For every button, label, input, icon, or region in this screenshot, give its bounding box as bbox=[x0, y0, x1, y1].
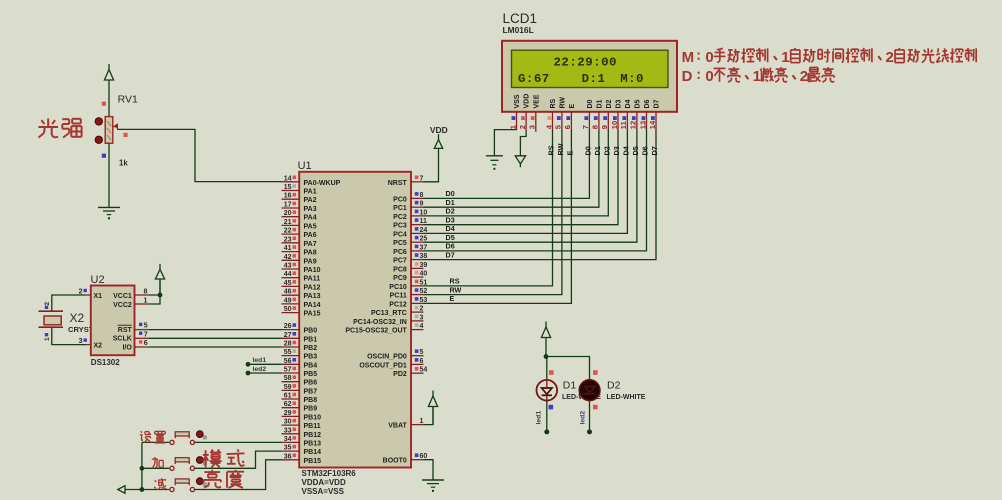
U1 pin 28 (PB2) bbox=[282, 346, 300, 348]
svg-text:9: 9 bbox=[600, 125, 609, 129]
wire 加 to PB14 bbox=[195, 451, 282, 468]
svg-text:PC1: PC1 bbox=[393, 205, 407, 212]
svg-text:PA14: PA14 bbox=[304, 302, 321, 309]
U1 pin 16 (PA2) bbox=[282, 198, 300, 200]
svg-text:D0: D0 bbox=[587, 99, 594, 108]
svg-text:VSS: VSS bbox=[514, 94, 521, 108]
svg-text:D4: D4 bbox=[446, 224, 455, 233]
svg-text:PC3: PC3 bbox=[393, 223, 407, 230]
svg-text:20: 20 bbox=[284, 210, 292, 217]
button 减 bbox=[170, 487, 174, 491]
svg-text:D4: D4 bbox=[625, 99, 632, 108]
wire X1 to crystal top bbox=[52, 295, 87, 311]
svg-text:D2: D2 bbox=[606, 99, 613, 108]
U1 pin 50 (PA15) bbox=[282, 312, 300, 314]
wire rail to ground arrow bbox=[125, 489, 142, 491]
svg-text:34: 34 bbox=[284, 436, 292, 443]
U2 pin 1 (VCC2) bbox=[135, 303, 149, 305]
svg-text:RST: RST bbox=[118, 327, 133, 334]
svg-text:PC13_RTC: PC13_RTC bbox=[371, 310, 407, 317]
svg-text:STM32F103R6: STM32F103R6 bbox=[302, 469, 357, 478]
svg-text:PB1: PB1 bbox=[304, 336, 318, 343]
svg-text:50: 50 bbox=[284, 306, 292, 313]
svg-text:D:1: D:1 bbox=[582, 72, 606, 86]
svg-text:VDDA=VDD: VDDA=VDD bbox=[302, 478, 346, 487]
U1 pin 29 (PB10) bbox=[282, 415, 300, 417]
svg-text:LM016L: LM016L bbox=[503, 25, 534, 35]
svg-text:33: 33 bbox=[284, 427, 292, 434]
wire D1 to led1 net bbox=[546, 401, 548, 431]
svg-text:45: 45 bbox=[284, 280, 292, 287]
svg-text:BOOT0: BOOT0 bbox=[383, 458, 407, 465]
net led2 wire to PB5 bbox=[246, 371, 251, 376]
svg-text:PA12: PA12 bbox=[304, 284, 321, 291]
svg-text:D6: D6 bbox=[641, 146, 650, 155]
U1 pin 7 (NRST) bbox=[411, 181, 424, 183]
U2 pin 8 (VCC1) bbox=[135, 294, 149, 296]
svg-text:PA10: PA10 bbox=[304, 267, 321, 274]
svg-text:VDD: VDD bbox=[430, 125, 448, 135]
junction LED supply bbox=[544, 354, 549, 359]
ground (RV1) bbox=[98, 206, 120, 208]
svg-text:VDD: VDD bbox=[524, 94, 531, 109]
U1 pin 20 (PA4) bbox=[282, 216, 300, 218]
wire BOOT0 to ground bbox=[424, 460, 434, 480]
wire RST to U1 PB0 bbox=[148, 329, 281, 331]
U2 pin 5 (RST) bbox=[135, 329, 149, 331]
RV1 wiper arrow bbox=[116, 124, 118, 129]
U1 pin 3 (PC14-OSC32_IN) bbox=[411, 320, 424, 322]
U1 pin 57 (PB5) bbox=[282, 372, 300, 374]
svg-text:D0: D0 bbox=[583, 146, 592, 155]
svg-text:6: 6 bbox=[563, 125, 572, 129]
U1 pin 36 (PB15) bbox=[282, 459, 300, 461]
svg-text:PA5: PA5 bbox=[304, 223, 317, 230]
svg-text:D0: D0 bbox=[446, 189, 455, 198]
U2 pin 6 (I/O) bbox=[135, 346, 149, 348]
svg-text:led2: led2 bbox=[580, 411, 587, 425]
U1 pin 11 (PC3) bbox=[411, 224, 424, 226]
svg-text:35: 35 bbox=[284, 445, 292, 452]
wire button rail bbox=[141, 442, 143, 489]
svg-text:PB4: PB4 bbox=[304, 362, 318, 369]
junction rail-加 bbox=[140, 466, 145, 471]
svg-text:D1: D1 bbox=[563, 379, 577, 391]
LCD1 body bbox=[502, 41, 677, 112]
RV1 adjust button down bbox=[95, 136, 102, 143]
wire D7 LCD to U1 bbox=[424, 130, 657, 260]
svg-text:1: 1 bbox=[781, 49, 789, 66]
U1 pin 53 (PC12) bbox=[411, 302, 424, 304]
svg-text:D3: D3 bbox=[612, 146, 621, 155]
power down arrow (LCD VDD) bbox=[515, 156, 525, 164]
svg-text:16: 16 bbox=[284, 193, 292, 200]
svg-text:1k: 1k bbox=[119, 159, 128, 168]
svg-text:12: 12 bbox=[629, 121, 638, 129]
svg-text:PB12: PB12 bbox=[304, 432, 322, 439]
svg-text:U2: U2 bbox=[91, 274, 105, 286]
svg-text:PC7: PC7 bbox=[393, 258, 407, 265]
U1 pin 8 (PC0) bbox=[411, 197, 424, 199]
U1 body bbox=[299, 172, 411, 468]
U1 pin 9 (PC1) bbox=[411, 206, 424, 208]
wire D6 LCD to U1 bbox=[424, 130, 647, 251]
svg-text:led1: led1 bbox=[536, 411, 543, 425]
svg-text:59: 59 bbox=[284, 384, 292, 391]
wire D0 LCD to U1 bbox=[424, 130, 590, 199]
svg-text:X2: X2 bbox=[94, 342, 103, 349]
svg-text:PB10: PB10 bbox=[304, 414, 322, 421]
wire LCD VDD to power bbox=[520, 130, 526, 156]
svg-text:58: 58 bbox=[284, 375, 292, 382]
svg-text:E: E bbox=[569, 104, 576, 109]
svg-text:E: E bbox=[565, 151, 574, 156]
svg-text:PC15-OSC32_OUT: PC15-OSC32_OUT bbox=[345, 328, 407, 335]
U1 pin 61 (PB8) bbox=[282, 398, 300, 400]
wire to D2 bbox=[546, 357, 590, 380]
svg-text:2: 2 bbox=[44, 302, 51, 306]
ground arrow (buttons) bbox=[118, 486, 125, 494]
svg-text:43: 43 bbox=[284, 263, 292, 270]
svg-text:PB11: PB11 bbox=[304, 423, 321, 430]
svg-text:SCLK: SCLK bbox=[113, 336, 132, 343]
svg-text:D1: D1 bbox=[597, 99, 604, 108]
svg-text:PA2: PA2 bbox=[304, 197, 317, 204]
U2 pin 7 (SCLK) bbox=[135, 337, 149, 339]
svg-text:PA0-WKUP: PA0-WKUP bbox=[304, 180, 341, 187]
svg-text:9: 9 bbox=[420, 201, 424, 208]
U1 pin 44 (PA11) bbox=[282, 277, 300, 279]
svg-text:D2: D2 bbox=[446, 207, 455, 216]
svg-text:6: 6 bbox=[144, 340, 148, 347]
svg-text:PA9: PA9 bbox=[304, 258, 317, 265]
svg-text:22: 22 bbox=[284, 228, 292, 235]
svg-text:0: 0 bbox=[705, 68, 713, 85]
svg-text:M: M bbox=[682, 49, 694, 66]
svg-text:D7: D7 bbox=[650, 146, 659, 155]
U1 pin 38 (PC7) bbox=[411, 259, 424, 261]
svg-text:E: E bbox=[450, 294, 455, 303]
svg-text:PC14-OSC32_IN: PC14-OSC32_IN bbox=[353, 319, 407, 326]
svg-text:RS: RS bbox=[450, 277, 460, 286]
svg-text:PA11: PA11 bbox=[304, 276, 321, 283]
svg-text:2: 2 bbox=[886, 49, 894, 66]
U1 pin 23 (PA7) bbox=[282, 242, 300, 244]
wire D2 LCD to U1 bbox=[424, 130, 609, 216]
LED D2 (on) bbox=[579, 380, 600, 401]
svg-text:PA7: PA7 bbox=[304, 241, 317, 248]
svg-text:2: 2 bbox=[800, 68, 808, 85]
svg-text:10: 10 bbox=[610, 121, 619, 129]
svg-text:44: 44 bbox=[284, 271, 292, 278]
svg-text:PB5: PB5 bbox=[304, 371, 318, 378]
U1 pin 43 (PA10) bbox=[282, 268, 300, 270]
svg-text:PB15: PB15 bbox=[304, 458, 322, 465]
svg-text:PC10: PC10 bbox=[389, 284, 407, 291]
junction rail-减 bbox=[140, 487, 145, 492]
svg-text:21: 21 bbox=[284, 219, 292, 226]
svg-text:D6: D6 bbox=[446, 242, 455, 251]
wire D5 LCD to U1 bbox=[424, 130, 637, 243]
svg-text:PD2: PD2 bbox=[393, 371, 407, 378]
potentiometer RV1 bbox=[105, 117, 113, 144]
U2 body bbox=[91, 286, 135, 356]
svg-text:42: 42 bbox=[284, 254, 292, 261]
svg-text:3: 3 bbox=[420, 314, 424, 321]
svg-text:OSCOUT_PD1: OSCOUT_PD1 bbox=[359, 362, 407, 369]
U1 pin 1 (VBAT) bbox=[411, 424, 424, 426]
wire D1 LCD to U1 bbox=[424, 130, 599, 208]
U1 pin 49 (PA14) bbox=[282, 303, 300, 305]
button 设置 bbox=[170, 440, 174, 444]
svg-text:PC8: PC8 bbox=[393, 266, 407, 273]
RV1 adjust button up bbox=[95, 118, 102, 125]
svg-text:D6: D6 bbox=[644, 99, 651, 108]
U1 pin 60 (BOOT0) bbox=[411, 459, 424, 461]
svg-text:PB9: PB9 bbox=[304, 406, 318, 413]
svg-text:39: 39 bbox=[420, 262, 428, 269]
svg-text:29: 29 bbox=[284, 410, 292, 417]
svg-text:D3: D3 bbox=[616, 99, 623, 108]
svg-text:M:0: M:0 bbox=[620, 72, 644, 86]
svg-text:26: 26 bbox=[284, 323, 292, 330]
svg-text:VEE: VEE bbox=[533, 94, 540, 108]
svg-text:OSCIN_PD0: OSCIN_PD0 bbox=[367, 354, 407, 361]
svg-text:36: 36 bbox=[284, 453, 292, 460]
svg-text:D2: D2 bbox=[607, 379, 621, 391]
svg-text:17: 17 bbox=[284, 202, 292, 209]
svg-text:D7: D7 bbox=[446, 250, 455, 259]
wire 减 to PB15 bbox=[195, 460, 282, 490]
junction VCC bbox=[158, 293, 163, 298]
power arrow (U2 VCC) bbox=[159, 264, 161, 295]
U2 pin 2 (X1) bbox=[86, 294, 91, 296]
svg-text:5: 5 bbox=[144, 323, 148, 330]
button 加 bbox=[170, 466, 174, 470]
svg-text:PC6: PC6 bbox=[393, 249, 407, 256]
U1 pin 15 (PA1) bbox=[282, 190, 300, 192]
svg-text:2: 2 bbox=[79, 289, 83, 296]
svg-text:PB13: PB13 bbox=[304, 440, 322, 447]
wire to D1 bbox=[546, 357, 548, 381]
U1 pin 41 (PA8) bbox=[282, 251, 300, 253]
wire RV1 bottom bbox=[108, 143, 110, 207]
svg-text:D5: D5 bbox=[446, 233, 455, 242]
U1 pin 6 (OSCOUT_PD1) bbox=[411, 363, 424, 365]
svg-text:1: 1 bbox=[144, 298, 148, 305]
svg-text:5: 5 bbox=[420, 349, 424, 356]
svg-text:57: 57 bbox=[284, 367, 292, 374]
U1 pin 17 (PA3) bbox=[282, 207, 300, 209]
svg-text:RW: RW bbox=[560, 97, 567, 109]
svg-text:PC0: PC0 bbox=[393, 196, 407, 203]
U1 pin 58 (PB6) bbox=[282, 381, 300, 383]
svg-text:led2: led2 bbox=[253, 366, 267, 373]
svg-text:RS: RS bbox=[547, 145, 556, 155]
svg-text:1: 1 bbox=[44, 337, 51, 341]
svg-text:D2: D2 bbox=[602, 146, 611, 155]
svg-text:PB7: PB7 bbox=[304, 388, 318, 395]
U1 pin 46 (PA13) bbox=[282, 294, 300, 296]
svg-text:56: 56 bbox=[284, 358, 292, 365]
svg-text:PA4: PA4 bbox=[304, 215, 317, 222]
U1 pin 26 (PB0) bbox=[282, 329, 300, 331]
U1 pin 22 (PA6) bbox=[282, 233, 300, 235]
label 模式 (red) bbox=[205, 450, 207, 467]
crystal X2 bbox=[39, 310, 64, 312]
power VDD arrow bbox=[438, 134, 440, 152]
svg-text:55: 55 bbox=[284, 349, 292, 356]
power VCC (RV1 top) bbox=[108, 64, 110, 117]
svg-text:PA8: PA8 bbox=[304, 250, 317, 257]
U1 pin 27 (PB1) bbox=[282, 337, 300, 339]
svg-text:PB14: PB14 bbox=[304, 449, 322, 456]
U1 pin 37 (PC6) bbox=[411, 250, 424, 252]
wire NRST to VDD bbox=[424, 152, 439, 182]
svg-text:PA1: PA1 bbox=[304, 189, 317, 196]
svg-text:PA15: PA15 bbox=[304, 311, 321, 318]
U1 pin 52 (PC11) bbox=[411, 294, 424, 296]
wire VBAT to power bbox=[424, 406, 434, 425]
svg-text:11: 11 bbox=[619, 120, 628, 129]
svg-text:RW: RW bbox=[450, 285, 462, 294]
svg-text:54: 54 bbox=[420, 367, 428, 374]
svg-text:14: 14 bbox=[284, 175, 292, 182]
svg-text:RW: RW bbox=[556, 143, 565, 155]
U1 pin 59 (PB7) bbox=[282, 389, 300, 391]
svg-text:4: 4 bbox=[420, 323, 424, 330]
svg-text:PB8: PB8 bbox=[304, 397, 318, 404]
svg-text:VCC2: VCC2 bbox=[113, 302, 132, 309]
svg-text:14: 14 bbox=[648, 120, 657, 129]
wire LCD VSS to ground bbox=[494, 130, 516, 156]
U1 pin 25 (PC5) bbox=[411, 241, 424, 243]
svg-text:2: 2 bbox=[420, 306, 424, 313]
svg-text:7: 7 bbox=[420, 175, 424, 182]
U1 pin 40 (PC9) bbox=[411, 276, 424, 278]
svg-text:3: 3 bbox=[528, 125, 537, 129]
U1 pin 55 (PB3) bbox=[282, 355, 300, 357]
svg-text:PB3: PB3 bbox=[304, 354, 318, 361]
LED D1 bbox=[537, 380, 558, 401]
U1 pin 4 (PC15-OSC32_OUT) bbox=[411, 329, 424, 331]
svg-text:49: 49 bbox=[284, 297, 292, 304]
wire RV1 wiper to U1 PA0 bbox=[117, 129, 281, 181]
wire I/O to U1 PB2 bbox=[148, 346, 281, 348]
U1 pin 34 (PB13) bbox=[282, 441, 300, 443]
svg-text:LCD1: LCD1 bbox=[503, 11, 538, 26]
svg-text:22:29:00: 22:29:00 bbox=[554, 55, 618, 69]
svg-text:RS: RS bbox=[550, 98, 557, 108]
svg-text:1: 1 bbox=[753, 68, 761, 85]
svg-text:27: 27 bbox=[284, 332, 292, 339]
svg-text:D1: D1 bbox=[446, 198, 455, 207]
svg-text:I/O: I/O bbox=[122, 344, 132, 351]
U1 pin 62 (PB9) bbox=[282, 407, 300, 409]
power arrow (VBAT) bbox=[432, 391, 434, 425]
U2 pin 3 (X2) bbox=[86, 344, 91, 346]
svg-text:X1: X1 bbox=[94, 293, 103, 300]
svg-text:PA13: PA13 bbox=[304, 293, 321, 300]
U1 pin 45 (PA12) bbox=[282, 285, 300, 287]
svg-text:D4: D4 bbox=[621, 145, 630, 155]
LCD screen bbox=[512, 50, 669, 87]
svg-text:61: 61 bbox=[284, 393, 292, 400]
svg-text:30: 30 bbox=[284, 419, 292, 426]
wire SCLK to U1 PB1 bbox=[148, 337, 281, 339]
U1 pin 33 (PB12) bbox=[282, 433, 300, 435]
net led1 wire to PB4 bbox=[246, 362, 251, 367]
svg-text:PC12: PC12 bbox=[389, 301, 407, 308]
U1 pin 30 (PB11) bbox=[282, 424, 300, 426]
U1 pin 42 (PA9) bbox=[282, 259, 300, 261]
U1 pin 14 (PA0-WKUP) bbox=[282, 181, 300, 183]
svg-text:U1: U1 bbox=[298, 160, 312, 172]
svg-text:PC11: PC11 bbox=[390, 293, 407, 300]
RV1 state squares bbox=[102, 102, 106, 106]
wire crystal bottom to X2 bbox=[52, 327, 87, 344]
svg-text:NRST: NRST bbox=[388, 180, 408, 187]
ground (BOOT0) bbox=[422, 479, 444, 481]
svg-text:0: 0 bbox=[705, 49, 713, 66]
wire RS LCD to U1 bbox=[424, 130, 553, 286]
wire RW LCD to U1 bbox=[424, 130, 562, 295]
U1 pin 24 (PC4) bbox=[411, 232, 424, 234]
svg-text:VCC1: VCC1 bbox=[113, 293, 132, 300]
wire D2 to led2 net bbox=[589, 400, 591, 431]
wire rail to 加 bbox=[142, 467, 169, 469]
wire rail to 减 bbox=[142, 489, 169, 491]
svg-text:8: 8 bbox=[144, 289, 148, 296]
svg-text:VBAT: VBAT bbox=[388, 423, 407, 430]
wire D4 LCD to U1 bbox=[424, 130, 628, 234]
U1 pin 54 (PD2) bbox=[411, 372, 424, 374]
svg-text:D1: D1 bbox=[593, 146, 602, 155]
svg-text:PA3: PA3 bbox=[304, 206, 317, 213]
U1 pin 35 (PB14) bbox=[282, 450, 300, 452]
svg-text:PC4: PC4 bbox=[393, 231, 407, 238]
svg-text:PC5: PC5 bbox=[393, 240, 407, 247]
svg-text:PC2: PC2 bbox=[393, 214, 407, 221]
svg-text:6: 6 bbox=[420, 358, 424, 365]
svg-text:15: 15 bbox=[284, 184, 292, 191]
U1 pin 2 (PC13_RTC) bbox=[411, 311, 424, 313]
svg-text:41: 41 bbox=[284, 245, 292, 252]
svg-text:PC9: PC9 bbox=[393, 275, 407, 282]
wire 设置 to PB13 bbox=[195, 441, 282, 443]
wire E LCD to U1 bbox=[424, 130, 572, 304]
label 光强 (red) bbox=[41, 120, 44, 124]
U1 pin 21 (PA5) bbox=[282, 224, 300, 226]
svg-text:RV1: RV1 bbox=[118, 94, 138, 106]
wire VCC1/VCC2 to power bbox=[148, 295, 160, 304]
svg-text:8: 8 bbox=[420, 192, 424, 199]
wire D3 LCD to U1 bbox=[424, 130, 619, 225]
svg-text:D5: D5 bbox=[631, 146, 640, 155]
svg-text:40: 40 bbox=[420, 271, 428, 278]
label 亮度 (red) bbox=[211, 470, 213, 472]
svg-text:28: 28 bbox=[284, 341, 292, 348]
ground (LCD VSS) bbox=[486, 155, 503, 157]
svg-text:G:67: G:67 bbox=[518, 72, 550, 86]
svg-text:D7: D7 bbox=[654, 99, 661, 108]
power arrow (LED) bbox=[545, 322, 547, 357]
U1 pin 10 (PC2) bbox=[411, 215, 424, 217]
svg-text:D: D bbox=[682, 68, 693, 85]
svg-text:led1: led1 bbox=[253, 357, 267, 364]
svg-text:2: 2 bbox=[518, 125, 527, 129]
svg-text:13: 13 bbox=[638, 121, 647, 129]
